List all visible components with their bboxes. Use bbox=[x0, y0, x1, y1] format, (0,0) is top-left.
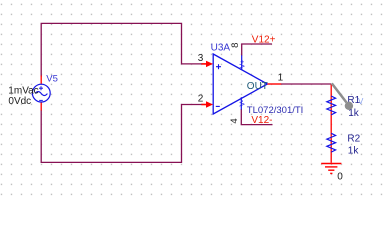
op-amp non-inverting input pin (arrow) bbox=[202, 61, 214, 67]
wire V+ pin to V12+ bbox=[242, 44, 272, 56]
svg-text:OUT: OUT bbox=[247, 81, 268, 92]
wire V- pin to V12- bbox=[241, 109, 272, 125]
resistor R1 body bbox=[327, 96, 336, 115]
svg-text:V: V bbox=[358, 97, 364, 106]
svg-text:V+: V+ bbox=[240, 60, 247, 69]
svg-text:V12-: V12- bbox=[251, 115, 272, 126]
svg-text:8: 8 bbox=[230, 43, 241, 48]
svg-text:U3A: U3A bbox=[211, 42, 231, 53]
op-amp plus symbol bbox=[216, 64, 221, 69]
op-amp V+ pin (pin 8) bbox=[241, 55, 243, 69]
svg-text:2: 2 bbox=[198, 93, 204, 104]
V5 sine wave bbox=[35, 92, 47, 96]
op-amp inverting input pin (arrow) bbox=[202, 101, 214, 107]
wire from V5 top to op-amp non-inverting input bbox=[41, 23, 202, 76]
svg-text:1: 1 bbox=[278, 73, 284, 84]
svg-text:V-: V- bbox=[239, 99, 246, 106]
svg-text:1mVac: 1mVac bbox=[8, 85, 38, 96]
op-amp U1 triangle bbox=[213, 54, 267, 114]
op-amp minus symbol bbox=[216, 105, 220, 107]
op-amp output pin bbox=[267, 83, 281, 85]
voltage probe marker needle bbox=[332, 83, 347, 102]
voltage source V5 pins bbox=[40, 76, 42, 111]
svg-text:TL072/301/TI: TL072/301/TI bbox=[247, 105, 304, 116]
svg-text:1k: 1k bbox=[348, 146, 360, 157]
svg-text:V5: V5 bbox=[46, 74, 58, 85]
svg-text:4: 4 bbox=[229, 118, 240, 123]
ground symbol bbox=[321, 164, 341, 174]
svg-text:V12+: V12+ bbox=[252, 34, 276, 45]
op-amp V- pin (pin 4) bbox=[240, 97, 242, 109]
voltage probe marker handle bbox=[345, 102, 353, 110]
svg-text:R2: R2 bbox=[347, 134, 360, 145]
resistor chain pin stubs R1/R2 bbox=[330, 84, 332, 163]
V5 minus mark bbox=[39, 99, 43, 101]
wire op-amp output to R1 top node bbox=[281, 83, 331, 85]
svg-text:0Vdc: 0Vdc bbox=[8, 96, 31, 107]
wire from V5 bottom to op-amp inverting input bbox=[41, 105, 202, 163]
V5 plus mark bbox=[39, 86, 43, 90]
svg-text:0: 0 bbox=[337, 171, 343, 182]
voltage source V5 body bbox=[32, 84, 50, 102]
resistor R2 body bbox=[327, 133, 336, 152]
svg-text:3: 3 bbox=[198, 53, 204, 64]
